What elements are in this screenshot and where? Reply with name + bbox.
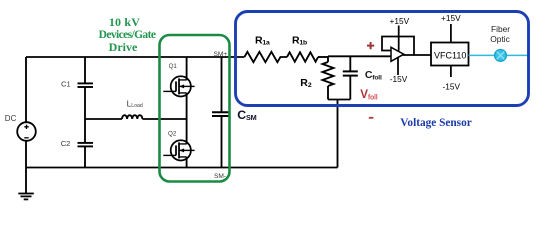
op-amp U1 [391,47,404,61]
svg-text:+15V: +15V [441,13,461,23]
wire op-amp +supply [398,26,400,51]
transistor Q1 [163,76,194,96]
label minus red [369,117,374,119]
capacitor C2 [78,119,94,168]
wire op-amp output [403,54,431,56]
wire op-amp -supply [397,58,399,76]
wire Q1 drain from top rail [186,57,188,80]
transistor Q2 [163,140,194,160]
DC source V1 [17,122,36,141]
svg-text:Voltage Sensor: Voltage Sensor [400,117,471,129]
wire Q1 source to phase node [186,93,188,119]
svg-text:SM+: SM+ [214,51,228,58]
op-amp U1 feedback wire [382,37,414,56]
VFC110 U2 [431,43,469,66]
svg-text:C1: C1 [61,80,71,89]
svg-text:-15V: -15V [443,82,461,92]
wire inductor to phase node [142,118,186,120]
svg-text:Fiber: Fiber [491,24,510,34]
wire sensor return drop [337,100,339,168]
capacitor Cfoll [343,56,358,99]
wire left rail [25,57,27,122]
capacitor C1 [78,57,94,119]
svg-text:10 kV: 10 kV [109,15,140,29]
svg-text:Q1: Q1 [169,63,178,70]
fiber optic coupler [495,50,507,62]
svg-text:-15V: -15V [390,74,408,84]
wire DC to bottom rail [25,141,27,168]
svg-text:C2: C2 [61,139,71,148]
wire Q2 source to bottom rail [186,157,188,168]
wire ground stub [25,168,27,194]
label plus red [367,42,374,49]
svg-text:+15V: +15V [390,16,410,26]
wire VFC -supply [450,66,452,78]
wire rail between R1b and op-amp [318,56,329,58]
wire middle rail to inductor [85,118,122,120]
wire bottom rail SM- [26,167,338,169]
wire R2/Cfoll bottom [328,99,350,101]
svg-text:Optic: Optic [490,34,510,44]
svg-text:Drive: Drive [109,40,138,54]
inductor Lload [122,115,142,119]
wire fiber optic cyan right [506,54,528,56]
wire VFC +supply [450,24,452,43]
wire top rail SM+ [26,56,244,58]
resistor R1b [287,52,318,61]
blue box voltage sensor [236,12,529,106]
svg-text:VFC110: VFC110 [434,51,466,61]
ground [18,194,34,200]
resistor R2 [323,56,334,99]
green box 10kV devices [160,35,230,182]
resistor R1a [244,52,287,62]
capacitor CSM [212,57,231,168]
wire phase node to Q2 drain [186,119,188,144]
wire rail to op-amp [328,55,391,57]
wire fiber optic cyan left [469,54,495,56]
svg-text:Q2: Q2 [168,130,177,137]
svg-text:DC: DC [5,114,17,123]
